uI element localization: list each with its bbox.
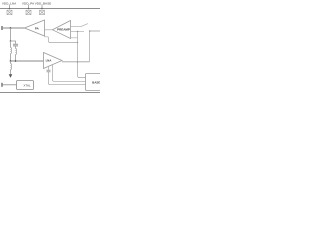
node VDD_PA junction [28, 8, 30, 10]
wire riser up [89, 31, 91, 62]
svg-text:XTAL: XTAL [23, 84, 31, 88]
node bias junction [77, 42, 78, 43]
port bottom-left terminal [1, 83, 3, 87]
inductor L1 [10, 41, 12, 48]
node RX right [15, 60, 17, 62]
port TX output terminal [1, 26, 3, 30]
node RX left [10, 60, 12, 62]
node matching junction [10, 40, 12, 42]
capacitor C2 [47, 70, 51, 72]
wire VDD_PA stub [28, 5, 30, 9]
wire PA to PREAMP [45, 29, 53, 31]
wire coil to node [15, 55, 17, 62]
wire cap branch top [11, 41, 16, 44]
node LNA out junction [77, 61, 78, 62]
wire PA bias route [45, 37, 78, 43]
wire top supply rail [0, 8, 100, 10]
node VDD_BASE junction [41, 8, 43, 10]
wire bottom-left [2, 84, 17, 86]
node riser top [89, 30, 91, 32]
wire right vertical drop [78, 32, 86, 78]
wire PREAMP top out [71, 26, 82, 28]
amplifier PREAMP [53, 21, 71, 39]
svg-text:LNA: LNA [46, 59, 52, 63]
svg-text:BASEBAND: BASEBAND [92, 80, 100, 84]
wire PREAMP bottom out [71, 37, 78, 39]
wire TX output [2, 27, 25, 29]
ferrite bead FB3 [40, 10, 45, 14]
wire LNA pin A route [49, 72, 86, 85]
svg-text:VDD_LNA: VDD_LNA [2, 1, 17, 5]
wire matching vertical [10, 28, 12, 41]
capacitor C1 [13, 44, 18, 46]
wire PREAMP mid out [71, 31, 85, 33]
node matching tap [10, 27, 12, 29]
inductor L2 [16, 49, 17, 55]
node VDD_LNA junction [9, 8, 11, 10]
wire LNA pin B route [53, 65, 86, 82]
inductor L3 [10, 61, 12, 64]
wire LNA pin A [48, 66, 50, 69]
amplifier LNA [44, 53, 63, 69]
box XTAL [17, 81, 34, 90]
wire LNA out to riser [62, 61, 90, 63]
wire cap to coil [15, 46, 17, 49]
switch blade S1 [81, 24, 88, 27]
svg-text:PREAMP: PREAMP [57, 28, 70, 32]
wire bottom rail [0, 92, 100, 94]
ferrite bead FB1 [7, 10, 12, 14]
wire VDD_BASE stub [41, 5, 43, 9]
ferrite bead FB2 [26, 10, 31, 14]
amplifier PA [25, 20, 45, 36]
antenna arrow [9, 74, 13, 78]
wire to right edge [90, 30, 101, 32]
wire VDD_LNA stub [9, 5, 11, 9]
node preamp mid [77, 31, 78, 32]
svg-text:VDD_BASE: VDD_BASE [35, 1, 52, 5]
chip BASEBAND box [86, 74, 103, 91]
svg-text:VDD_PA: VDD_PA [22, 1, 35, 5]
wire RX line [11, 60, 44, 62]
